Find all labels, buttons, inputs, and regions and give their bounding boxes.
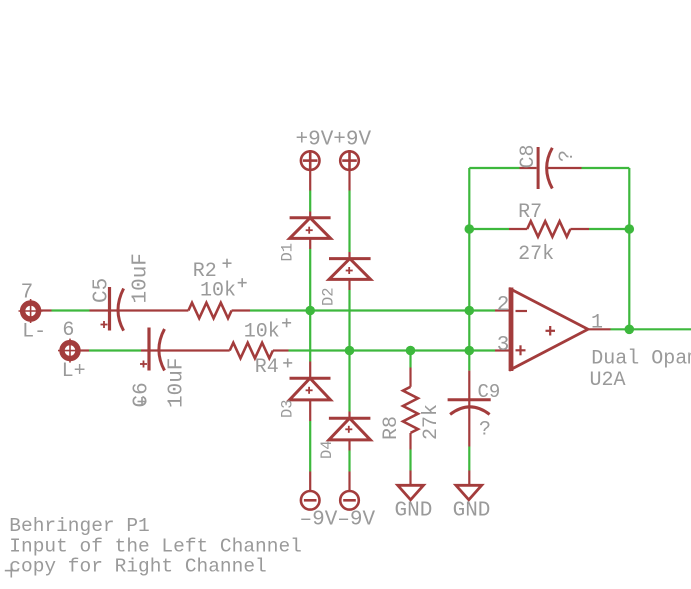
- wire D1 leads: [309, 212, 311, 219]
- node junction bottom wire / D2: [345, 346, 355, 356]
- svg-text:U2A: U2A: [590, 369, 626, 392]
- pad 6 (L+): [58, 339, 82, 363]
- wire net IN- top horizontal: [52, 309, 496, 311]
- svg-text:10k: 10k: [200, 279, 236, 302]
- wire pad6 stub: [78, 349, 89, 351]
- ground symbol GND right: [456, 485, 482, 500]
- wire -9V stubs: [309, 472, 311, 492]
- svg-text:?: ?: [479, 419, 491, 442]
- resistor R4 10k: [230, 343, 273, 359]
- svg-text:+9V+9V: +9V+9V: [296, 129, 372, 152]
- svg-text:27k: 27k: [420, 404, 443, 440]
- svg-text:6: 6: [62, 319, 74, 342]
- wire feedback top row (C8): [469, 167, 629, 169]
- svg-text:GND: GND: [453, 500, 491, 523]
- wire R8 vertical column: [409, 351, 411, 471]
- svg-text:Dual Opamp: Dual Opamp: [591, 348, 691, 371]
- wire C5-R2 leads: [90, 309, 189, 311]
- svg-text:1: 1: [591, 312, 603, 335]
- svg-text:10uF: 10uF: [166, 358, 189, 408]
- pad 7 (L-): [19, 299, 43, 323]
- svg-text:R4: R4: [255, 356, 279, 379]
- svg-text:D4: D4: [318, 440, 336, 459]
- svg-text:R7: R7: [518, 201, 542, 224]
- gray origin crosses: [5, 259, 292, 578]
- ground symbol GND left: [398, 485, 424, 500]
- svg-text:27k: 27k: [518, 243, 554, 266]
- svg-text:C6: C6: [131, 382, 154, 407]
- svg-text:7: 7: [21, 281, 34, 304]
- wire +9V stubs: [309, 170, 311, 191]
- svg-text:C8: C8: [517, 144, 540, 168]
- +9V supply symbol right: [340, 150, 359, 171]
- wire C8 leads: [520, 167, 537, 169]
- wire D2 leads: [348, 252, 350, 259]
- svg-text:10uF: 10uF: [130, 253, 153, 303]
- wire D3 leads: [309, 362, 311, 379]
- diode D3: [290, 378, 331, 400]
- wire net IN+ bottom horizontal: [89, 349, 495, 351]
- svg-text:2: 2: [497, 294, 510, 317]
- wire pad7 stub: [38, 309, 52, 311]
- svg-text:R8: R8: [380, 416, 403, 440]
- wire D2/D4 vertical column: [348, 191, 350, 472]
- wire output: [611, 328, 691, 330]
- diode D2: [329, 259, 371, 280]
- wire opamp pin3 lead: [495, 349, 511, 351]
- resistor R2 10k: [188, 303, 231, 319]
- svg-text:Input of the Left Channel: Input of the Left Channel: [9, 535, 302, 557]
- -9V supply symbol right: [340, 491, 359, 510]
- capacitor C5 10uF: [101, 287, 124, 331]
- svg-text:10k: 10k: [244, 320, 280, 343]
- wire D4 leads: [348, 412, 350, 419]
- wire opamp output lead: [588, 328, 611, 330]
- wire C6-R4 leads: [141, 349, 230, 351]
- op-amp U2A: [511, 288, 588, 372]
- diode D4: [329, 418, 371, 440]
- wire opamp pin2 lead: [495, 309, 511, 311]
- node junction output: [625, 325, 635, 335]
- svg-text:copy for Right Channel: copy for Right Channel: [9, 556, 266, 578]
- wire feedback right vertical: [628, 168, 630, 329]
- junction dots: [305, 224, 634, 355]
- node junction bottom wire / R8: [406, 346, 416, 356]
- wire R8 leads: [409, 368, 411, 387]
- diode D1: [290, 218, 331, 239]
- wire C9 / opamp input vertical column: [468, 168, 470, 471]
- svg-text:C9: C9: [478, 381, 501, 403]
- wire D1/D3 vertical column: [309, 191, 311, 472]
- +9V supply symbol left: [301, 150, 320, 171]
- node junction R7 right: [625, 224, 635, 234]
- wire R7 leads: [509, 228, 527, 230]
- wire feedback R7 row: [469, 228, 629, 230]
- node junction top wire / D1: [305, 306, 315, 316]
- wire C9 leads: [468, 371, 470, 447]
- -9V supply symbol left: [301, 491, 320, 510]
- node junction top wire / pin2 column: [465, 306, 475, 316]
- capacitor C9: [448, 400, 491, 415]
- capacitor C8 feedback: [538, 147, 552, 189]
- svg-text:L+: L+: [62, 360, 86, 383]
- svg-text:GND: GND: [395, 500, 433, 523]
- wire GND stubs: [409, 471, 411, 486]
- svg-text:–9V–9V: –9V–9V: [300, 509, 376, 532]
- svg-text:3: 3: [497, 334, 510, 357]
- svg-text:?: ?: [556, 150, 579, 162]
- svg-text:D1: D1: [279, 243, 297, 262]
- svg-text:Behringer P1: Behringer P1: [9, 515, 149, 537]
- svg-text:C5: C5: [90, 278, 113, 303]
- svg-text:L-: L-: [22, 321, 46, 344]
- node junction R7 left: [465, 224, 475, 234]
- node junction bottom wire / C9: [465, 346, 475, 356]
- red pin lead wires: [38, 168, 611, 491]
- capacitor C6 10uF: [140, 328, 165, 371]
- resistor R8 27k vertical: [403, 387, 418, 433]
- svg-text:D2: D2: [320, 287, 338, 306]
- resistor R7 27k feedback: [527, 221, 570, 237]
- svg-text:D3: D3: [279, 399, 297, 418]
